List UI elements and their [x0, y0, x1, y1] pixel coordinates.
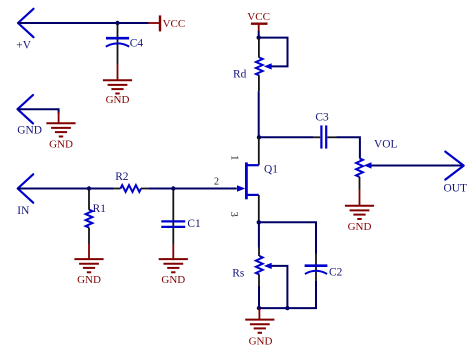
ground under R1 [74, 244, 103, 287]
wire Rd wiper loop [259, 38, 288, 67]
node junction source [257, 220, 261, 224]
ground under Rs [245, 308, 274, 347]
node junction at C4 tap [115, 21, 119, 25]
wire Rd to drain node [258, 91, 260, 137]
svg-text:Rd: Rd [233, 69, 247, 81]
svg-text:GND: GND [106, 94, 130, 106]
wire Rs bottom to rail [258, 286, 260, 308]
power VCC (left, bar style) [148, 15, 185, 31]
ground under VOL [345, 189, 374, 233]
svg-text:GND: GND [77, 274, 101, 286]
svg-text:VOL: VOL [374, 138, 397, 150]
svg-text:R1: R1 [93, 203, 107, 215]
capacitor C1 [161, 189, 201, 245]
svg-text:IN: IN [17, 205, 29, 217]
resistor R2 [114, 171, 148, 192]
resistor Rd (trimmer) [233, 38, 272, 92]
svg-text:+V: +V [16, 39, 31, 51]
wire +V rail [18, 22, 149, 24]
svg-text:C1: C1 [187, 218, 201, 230]
resistor VOL (potentiometer) [356, 138, 397, 189]
svg-text:VCC: VCC [247, 11, 270, 23]
svg-text:3: 3 [228, 212, 239, 217]
svg-text:Rs: Rs [232, 267, 245, 279]
wire GND port to ground [18, 109, 59, 113]
resistor R1 [86, 189, 107, 244]
port GND arrow (left) [17, 95, 42, 137]
svg-text:1: 1 [228, 155, 239, 160]
resistor Rs (trimmer) [232, 248, 271, 287]
wire source to Rs [258, 222, 260, 247]
svg-text:C3: C3 [315, 111, 329, 123]
svg-text:GND: GND [348, 221, 372, 233]
capacitor C2 [305, 254, 343, 282]
wire source to C2 branch [259, 222, 316, 253]
wire drain to C3 [259, 136, 313, 138]
node junction rail left [257, 306, 261, 310]
svg-text:GND: GND [161, 274, 185, 286]
port +V arrow [16, 9, 33, 52]
svg-text:GND: GND [249, 335, 273, 347]
node junction C1 tap [171, 186, 175, 190]
svg-text:2: 2 [214, 176, 219, 187]
wire VCC to Rd [258, 31, 260, 38]
wire VOL wiper to OUT [372, 165, 463, 167]
ground under C4 [103, 64, 132, 107]
port IN arrow [17, 174, 33, 217]
wire C2 to bottom rail [259, 281, 316, 308]
wire R2 to gate [148, 188, 237, 190]
wire IN to R2 [18, 188, 115, 190]
svg-text:GND: GND [17, 125, 42, 137]
transistor Q1 [237, 137, 278, 222]
wire C3 to VOL [337, 137, 360, 158]
ground (left port) [46, 112, 75, 150]
wire Rs wiper loop [272, 266, 288, 308]
ground under C1 [159, 244, 188, 286]
node junction drain [257, 135, 261, 139]
node junction Rd top [257, 35, 261, 39]
capacitor C3 [313, 111, 336, 148]
port OUT arrow [444, 152, 467, 195]
svg-text:R2: R2 [115, 171, 129, 183]
node junction R1 tap [87, 186, 91, 190]
svg-text:C4: C4 [130, 37, 144, 49]
svg-text:GND: GND [49, 138, 73, 150]
svg-text:C2: C2 [329, 267, 343, 279]
node junction wiper tap [285, 306, 289, 310]
svg-text:VCC: VCC [163, 18, 186, 30]
capacitor C4 [106, 23, 144, 64]
svg-text:OUT: OUT [444, 182, 467, 194]
svg-text:Q1: Q1 [264, 163, 278, 175]
power VCC (top, bar style) [247, 11, 270, 31]
